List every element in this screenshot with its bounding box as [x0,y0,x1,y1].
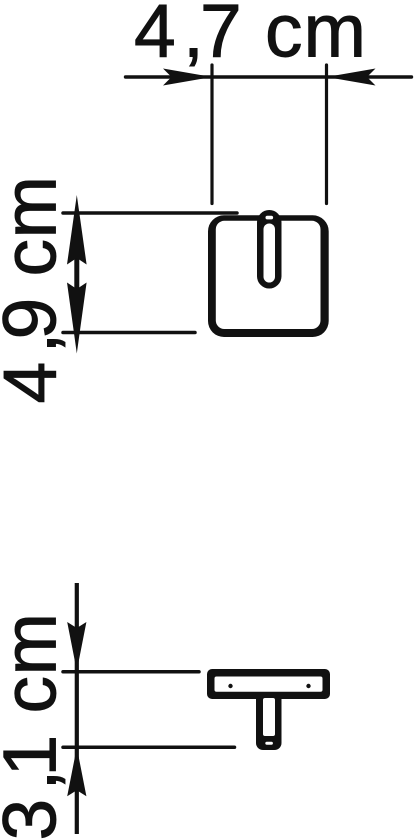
side view: screw dot left [228,684,232,688]
side view: screw dot right [306,684,310,688]
side view: plate inner (white) [215,677,323,692]
arrowhead right (points left) [327,69,376,86]
front view: square plate inner (white) [216,221,321,329]
extension line left (vertical) [210,65,213,204]
svg-text:3,1cm: 3,1cm [0,613,72,840]
front view: tab slot (white) [264,224,276,283]
extension line top (horizontal, mid) [63,211,237,215]
svg-text:4,7cm: 4,7cm [134,0,366,73]
front view: hook tab (black stadium) [257,210,282,289]
arrowhead down (mid) [67,283,87,354]
extension line bottom (horizontal, mid) [63,331,195,335]
dimension line (horizontal, top) [126,75,412,78]
arrowhead up (mid) [67,195,87,265]
arrowhead left (points right) [163,69,212,86]
arrowhead down (bottom) [67,622,86,671]
side view: stem bottom hole (white dash) [265,742,273,745]
svg-text:4,9cm: 4,9cm [0,176,72,403]
front view: square plate outer [208,215,329,337]
front view: tab top hole (white dash) [266,216,274,220]
dimension connector line (vertical, mid) [74,258,79,289]
dimension line (vertical, bottom) [75,583,79,834]
side view: stem (black) [256,695,282,750]
extension line right (vertical) [325,65,328,204]
extension line bottom (horizontal, bottom) [63,746,235,750]
arrowhead up (bottom) [67,747,86,796]
side view: stem slot (white) [263,698,275,736]
extension line top (horizontal, bottom) [63,670,199,674]
side view: plate outer [207,669,330,699]
